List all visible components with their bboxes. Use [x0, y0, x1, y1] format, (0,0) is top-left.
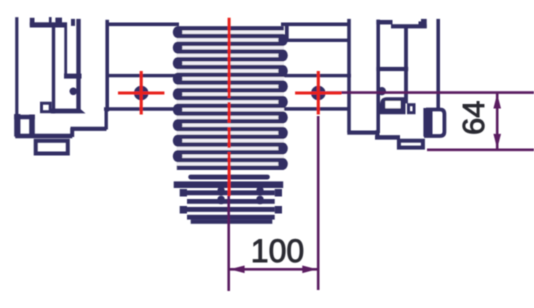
svg-text:64: 64 [456, 101, 491, 135]
svg-text:100: 100 [251, 233, 304, 269]
